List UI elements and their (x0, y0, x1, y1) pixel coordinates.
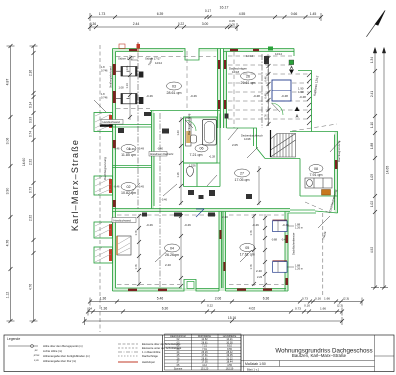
party wall between rooms 24/25 (218, 212, 220, 292)
dormer bays on street side (94, 113, 113, 132)
svg-text:-0.46: -0.46 (252, 223, 259, 227)
svg-text:•1.28: •1.28 (209, 155, 216, 159)
svg-text:0.36: 0.36 (90, 22, 96, 26)
svg-text:1.8: 1.8 (101, 65, 105, 69)
horizontal mid wall full width (113, 208, 291, 210)
svg-text:6.39: 6.39 (157, 12, 164, 16)
svg-text:1.08: 1.08 (119, 86, 125, 90)
svg-text:0.05: 0.05 (229, 22, 235, 26)
svg-text:1.66: 1.66 (324, 297, 330, 301)
svg-text:1.43: 1.43 (176, 130, 180, 136)
svg-text:1.10: 1.10 (370, 122, 374, 128)
svg-text:Maßstab 1:50: Maßstab 1:50 (245, 362, 266, 366)
table (165, 334, 242, 370)
room 27 (235, 169, 250, 177)
svg-text:0.46: 0.46 (264, 76, 268, 82)
svg-text:02: 02 (127, 185, 131, 189)
left dimension chain inner (30, 46, 38, 321)
room 03 (167, 82, 182, 90)
room 02 (121, 183, 136, 191)
svg-text:1.76: 1.76 (249, 264, 253, 270)
svg-text:0.74: 0.74 (29, 131, 33, 137)
interior tick line x=265 (264, 214, 266, 288)
svg-text:12/12: 12/12 (155, 61, 162, 65)
svg-text:6.36: 6.36 (263, 297, 270, 301)
heater orange (322, 190, 331, 196)
svg-text:0.14: 0.14 (29, 102, 33, 108)
street dashed line (99, 45, 101, 332)
svg-text:-0.46: -0.46 (184, 223, 191, 227)
svg-text:.34: .34 (88, 307, 93, 311)
svg-text:0.93: 0.93 (29, 117, 33, 123)
svg-text:16.17: 16.17 (220, 6, 229, 10)
right half left wall double (223, 49, 225, 129)
bottom dimension chain 1 (90, 298, 362, 306)
svg-text:17.61 qm: 17.61 qm (240, 253, 255, 257)
svg-text:2.16: 2.16 (29, 70, 33, 76)
svg-text:10.82 qm: 10.82 qm (121, 191, 136, 195)
svg-text:0.22: 0.22 (207, 303, 213, 307)
bathroom block outline (184, 117, 218, 163)
svg-text:1.02: 1.02 (370, 201, 374, 207)
kitchen separating wall (299, 159, 301, 197)
svg-text:Karl–Marx–Straße: Karl–Marx–Straße (70, 139, 80, 231)
scattered level marks (128, 94, 306, 273)
wall poche dark segments (113, 49, 338, 291)
svg-text:1.16: 1.16 (176, 172, 180, 178)
svg-text:Handtuchwand: Handtuchwand (103, 120, 121, 124)
room 08 (309, 165, 323, 173)
svg-text:2.32: 2.32 (29, 159, 33, 165)
dormer window room 24 (117, 236, 131, 255)
wall y=131 leftwards from step (290, 131, 312, 133)
svg-text:-0.45: -0.45 (138, 185, 144, 189)
green arc below skylight (272, 103, 284, 115)
room 26 (241, 72, 256, 80)
black radiator blocks (118, 56, 269, 217)
section marks A (289, 70, 300, 112)
svg-text:0.76: 0.76 (264, 114, 268, 120)
wc walls (184, 162, 221, 164)
room 24 (165, 244, 180, 252)
svg-text:11.85 qm: 11.85 qm (121, 153, 136, 157)
svg-text:151.20: 151.20 (201, 367, 209, 370)
svg-text:Höhenangabe über Flur (m): Höhenangabe über Flur (m) (43, 359, 76, 363)
svg-text:2.40: 2.40 (222, 215, 228, 219)
svg-text:Kapfante 12/12: Kapfante 12/12 (313, 75, 320, 96)
svg-text:3.06: 3.06 (6, 138, 10, 145)
svg-text:0.66: 0.66 (291, 12, 298, 16)
small wall y=124 left of bathroom (113, 124, 152, 126)
svg-text:Dachbegrenzung: Dachbegrenzung (187, 113, 191, 135)
interior window boxes room 03 (121, 67, 137, 104)
svg-text:0.73: 0.73 (29, 187, 33, 193)
svg-text:A: A (295, 114, 298, 119)
top dimension chain overall 16.17 (90, 13, 321, 21)
svg-text:0.46: 0.46 (264, 59, 268, 65)
svg-text:Deckendurchbruch: Deckendurchbruch (241, 134, 263, 138)
svg-text:4.02: 4.02 (249, 307, 256, 311)
svg-text:1.66: 1.66 (320, 307, 326, 311)
right wing walls (312, 132, 338, 214)
wall tint underlay (113, 49, 338, 292)
svg-text:12/12: 12/12 (246, 54, 253, 58)
svg-text:4.76: 4.76 (29, 284, 33, 290)
stepped top right corner (293, 49, 295, 57)
svg-text:-0.48: -0.48 (281, 94, 288, 98)
svg-text:0.16: 0.16 (304, 303, 310, 307)
svg-text:29.61 qm: 29.61 qm (241, 81, 256, 85)
svg-text:3.00: 3.00 (202, 22, 209, 26)
svg-text:1.05: 1.05 (370, 174, 374, 180)
svg-text:05: 05 (245, 246, 249, 250)
room 06 bath (195, 145, 208, 152)
svg-text:-0.46: -0.46 (128, 147, 135, 151)
svg-text:Abstellraum Dachschr.: Abstellraum Dachschr. (150, 153, 174, 156)
left outer wall double (112, 49, 114, 292)
svg-text:-0.46: -0.46 (146, 223, 153, 227)
svg-text:-0.46: -0.46 (282, 223, 289, 227)
north arrow (366, 10, 385, 37)
svg-text:Höhe über dem Bezugspunkt (m): Höhe über dem Bezugspunkt (m) (43, 344, 83, 348)
bathtub (203, 120, 217, 146)
svg-text:Legende: Legende (7, 337, 20, 341)
svg-text:(2.3): (2.3) (343, 297, 349, 301)
radiators red (109, 115, 112, 261)
svg-text:17.05 qm: 17.05 qm (235, 178, 250, 182)
svg-text:Straßengiebelwand: Straßengiebelwand (110, 66, 113, 88)
bath cabinet (186, 118, 192, 146)
top wall left half with notch (113, 49, 221, 61)
svg-text:Stütze 17/17: Stütze 17/17 (118, 57, 134, 61)
svg-text:0.746: 0.746 (101, 96, 108, 100)
svg-text:-0.46: -0.46 (146, 94, 153, 98)
svg-text:12/18: 12/18 (244, 137, 251, 141)
left dimension chain outer (7, 46, 15, 321)
svg-text:26: 26 (246, 74, 250, 78)
svg-text:Bautzen, Karl–Marx–Straße: Bautzen, Karl–Marx–Straße (292, 353, 347, 358)
top wall right half (220, 48, 294, 50)
svg-text:14.60: 14.60 (22, 158, 26, 167)
wc toilet (187, 167, 194, 177)
svg-text:-0.48: -0.48 (299, 95, 306, 99)
closet box in bottom notch (187, 282, 194, 289)
right dimension chain inner (371, 48, 379, 288)
svg-text:0.17: 0.17 (205, 9, 211, 13)
top dimension chain 2 (90, 23, 237, 31)
svg-text:1.14: 1.14 (125, 83, 129, 89)
wc door (207, 175, 217, 186)
svg-text:5.46: 5.46 (157, 297, 164, 301)
sink (191, 135, 197, 143)
svg-text:Summe: Summe (174, 367, 183, 370)
svg-text:162.59: 162.59 (226, 367, 234, 370)
wall y=166 between rooms 01/02 (113, 165, 152, 167)
svg-text:1.8: 1.8 (101, 92, 105, 96)
svg-text:0.16: 0.16 (315, 297, 321, 301)
svg-text:x,xx: x,xx (34, 359, 39, 362)
svg-text:4.55: 4.55 (239, 12, 246, 16)
svg-text:0.746: 0.746 (101, 69, 108, 73)
svg-text:1.26 m: 1.26 m (295, 267, 303, 271)
bath door swing (185, 120, 196, 131)
svg-text:1.01: 1.01 (125, 65, 129, 71)
staircase (271, 134, 296, 158)
svg-text:-0.48: -0.48 (253, 94, 260, 98)
svg-text:,x=xx: ,x=xx (33, 354, 40, 357)
svg-text:1.12: 1.12 (6, 292, 10, 299)
corridor left wall x=151.5 (151, 111, 153, 209)
svg-text:Heizkörper: Heizkörper (142, 360, 155, 364)
svg-text:,xx: ,xx (34, 349, 38, 352)
svg-text:1.76: 1.76 (134, 264, 138, 270)
svg-text:2.05: 2.05 (232, 143, 238, 147)
svg-text:Dachbegrenzung: Dachbegrenzung (103, 157, 107, 180)
red section line top (137, 43, 139, 52)
svg-text:2.41: 2.41 (370, 91, 374, 97)
dark door mark room 24 top (196, 209, 204, 217)
svg-text:7.21 qm: 7.21 qm (190, 153, 203, 157)
svg-text:14.65: 14.65 (386, 166, 390, 175)
svg-text:-0.40: -0.40 (157, 147, 163, 151)
svg-text:1.73: 1.73 (99, 12, 106, 16)
svg-text:2.40: 2.40 (256, 269, 262, 273)
stairwell bottom wall (265, 158, 300, 160)
svg-text:Stütze 17/17: Stütze 17/17 (145, 57, 161, 61)
svg-text:1.34: 1.34 (370, 57, 374, 63)
bottom dimension chain 2 (88, 308, 342, 316)
skylight blue box (272, 80, 291, 101)
svg-text:0.73: 0.73 (302, 297, 308, 301)
svg-text:2.06: 2.06 (215, 297, 222, 301)
svg-text:1 m Raumhöhe: 1 m Raumhöhe (142, 350, 161, 354)
svg-text:4.92: 4.92 (370, 247, 374, 253)
svg-text:Blatt 1 v.1: Blatt 1 v.1 (247, 367, 260, 371)
svg-text:-0.88: -0.88 (271, 237, 277, 241)
svg-text:2.32: 2.32 (29, 215, 33, 221)
svg-text:04: 04 (170, 246, 174, 250)
svg-text:4.76: 4.76 (6, 240, 10, 247)
svg-text:(2.3): (2.3) (337, 303, 343, 307)
svg-text:2.44: 2.44 (133, 22, 140, 26)
svg-text:2.40: 2.40 (165, 263, 171, 267)
svg-text:A: A (290, 65, 293, 70)
svg-text:4.87: 4.87 (6, 79, 10, 86)
svg-text:1.36: 1.36 (101, 307, 108, 311)
traufe dashed right (322, 213, 324, 295)
svg-text:1.30: 1.30 (298, 90, 304, 94)
svg-text:03: 03 (172, 84, 176, 88)
svg-text:1.76: 1.76 (134, 230, 138, 236)
svg-text:Lichte Höhe (m): Lichte Höhe (m) (43, 349, 62, 353)
svg-text:1.26 m: 1.26 m (295, 226, 303, 230)
svg-text:-0.49: -0.49 (138, 147, 144, 151)
bottom wall right part (226, 290, 289, 292)
svg-text:Dachschräge: Dachschräge (142, 354, 158, 358)
windows room 25 right wall (Dachflaechenfenster) (273, 221, 288, 273)
svg-text:1.88: 1.88 (370, 143, 374, 149)
svg-text:28.61 qm: 28.61 qm (167, 91, 182, 95)
svg-text:0.46: 0.46 (264, 93, 268, 99)
svg-text:-0.46: -0.46 (190, 94, 197, 98)
svg-text:0.73: 0.73 (295, 307, 301, 311)
room 25 (240, 244, 255, 252)
svg-text:-0.46: -0.46 (114, 185, 120, 189)
svg-text:1.52ß: 1.52ß (189, 164, 196, 168)
door swing diagonals (94, 100, 340, 262)
svg-text:12/18: 12/18 (232, 70, 239, 74)
svg-text:2.26: 2.26 (257, 275, 263, 279)
svg-text:27: 27 (240, 171, 244, 175)
svg-text:15.16: 15.16 (228, 316, 236, 320)
green post top right (289, 60, 294, 65)
svg-text:6.30: 6.30 (162, 307, 169, 311)
svg-text:08: 08 (314, 167, 318, 171)
svg-text:7.91 qm: 7.91 qm (310, 173, 323, 177)
svg-text:0.22: 0.22 (178, 22, 184, 26)
stairwell walls (227, 128, 266, 159)
section dash-dot lines (138, 42, 262, 210)
svg-text:06: 06 (200, 147, 204, 151)
wall above bathroom y=111 (150, 110, 220, 112)
right wall of room 25 (284, 212, 286, 292)
svg-text:1.45: 1.45 (310, 12, 317, 16)
svg-text:Traufe: Traufe (321, 231, 327, 241)
svg-text:1.36: 1.36 (100, 297, 107, 301)
svg-text:26.26qm: 26.26qm (165, 253, 179, 257)
svg-text:12/12: 12/12 (275, 52, 282, 56)
svg-text:Höhenangabe über Fertigfußbode: Höhenangabe über Fertigfußboden (m) (43, 354, 90, 358)
party wall left side double (217, 49, 219, 129)
right dimension chain outer (380, 48, 388, 288)
svg-text:3.90: 3.90 (6, 188, 10, 195)
bottom wall left half with notch (113, 280, 220, 292)
room 01 (121, 145, 136, 153)
interior dimension chains (130, 55, 269, 287)
svg-text:Handtuchwand: Handtuchwand (114, 218, 132, 222)
bottom dimension chain 3 overall (85, 317, 343, 325)
kitchen counter (305, 178, 332, 188)
dense tick ladder x=309 (307, 73, 311, 125)
dormer hatch fills (95, 113, 130, 263)
svg-text:Dachflächenfenster: Dachflächenfenster (292, 233, 296, 255)
svg-text:-0.46: -0.46 (161, 198, 167, 202)
svg-text:1.76: 1.76 (249, 230, 253, 236)
